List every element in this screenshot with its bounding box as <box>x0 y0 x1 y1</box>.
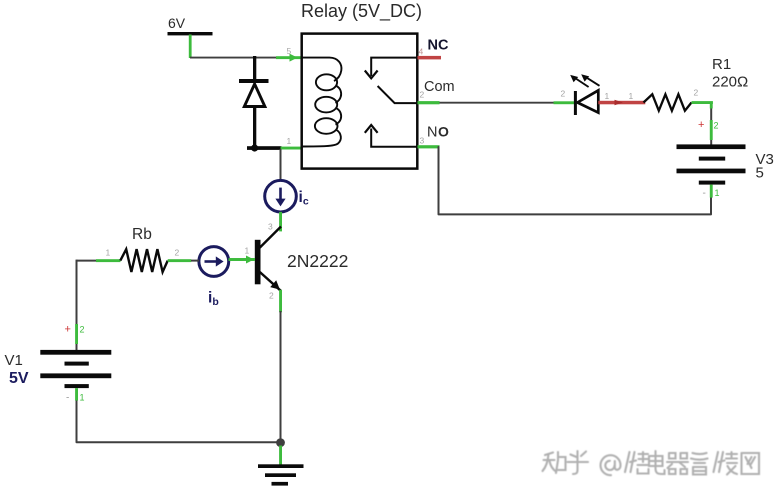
battery V1 <box>40 350 111 388</box>
wm char zi <box>691 453 708 475</box>
svg-text:1: 1 <box>80 393 85 403</box>
wire relay pin1 node down to ic source <box>280 149 282 181</box>
current probe ib <box>199 247 229 277</box>
svg-text:3: 3 <box>420 136 425 146</box>
pin 2 green stub <box>418 101 440 104</box>
wire emitter green stub <box>279 290 282 313</box>
wire V1 top vertical <box>76 260 78 325</box>
wire pin5 green stub with arrow <box>276 54 302 62</box>
svg-text:5: 5 <box>287 46 292 56</box>
wm char ji <box>625 452 649 474</box>
wm char dian <box>649 451 665 474</box>
svg-text:Com: Com <box>424 79 455 95</box>
LED emission arrow 1 <box>570 75 588 87</box>
svg-text:2: 2 <box>714 121 719 131</box>
relay contact NO arm with up arrow <box>365 125 418 147</box>
svg-text:1: 1 <box>287 136 292 146</box>
wire 6V to relay pin 5 <box>190 57 302 59</box>
battery V3 <box>677 144 746 184</box>
wire Rb to ib probe <box>191 260 199 262</box>
svg-text:6V: 6V <box>168 15 186 31</box>
wm char zhi <box>543 452 566 473</box>
relay coil L <box>302 58 342 147</box>
wire 6V stub (green) <box>189 35 192 59</box>
svg-text:+: + <box>698 119 704 131</box>
svg-text:2: 2 <box>80 325 85 335</box>
wire ground green stub <box>279 446 282 466</box>
svg-text:2: 2 <box>420 90 425 100</box>
svg-text:2N2222: 2N2222 <box>287 251 348 271</box>
svg-text:2: 2 <box>175 248 180 258</box>
wm char at <box>601 455 621 475</box>
svg-text:4: 4 <box>419 47 424 57</box>
label V3 5 <box>756 151 774 182</box>
svg-text:R1: R1 <box>712 56 731 73</box>
wire green stub Rb left <box>96 259 121 262</box>
wire LED to R1 (red) <box>598 101 645 105</box>
wire Com to LED <box>440 102 554 104</box>
wire ic to collector (green) <box>279 212 282 232</box>
svg-text:Rb: Rb <box>132 226 152 243</box>
svg-text:2: 2 <box>269 291 274 301</box>
svg-text:5: 5 <box>756 165 764 182</box>
svg-text:5V: 5V <box>9 370 29 387</box>
wire pin1 green stub <box>281 147 303 150</box>
svg-text:2: 2 <box>561 89 566 99</box>
pin 3 green stub <box>418 145 440 148</box>
svg-text:ib: ib <box>208 290 219 309</box>
transistor Q1 2N2222 <box>255 227 281 291</box>
wm char wang <box>742 453 760 474</box>
resistor Rb <box>120 249 167 272</box>
junction dot diode/anode node <box>251 144 258 151</box>
junction dot ground node <box>276 438 285 447</box>
label R1 220ohm <box>712 56 748 91</box>
svg-text:NO: NO <box>427 124 449 141</box>
relay contact NC arm with down arrow <box>365 58 418 79</box>
svg-text:+: + <box>65 324 71 336</box>
wire V3 minus green stub <box>710 185 713 198</box>
wire emitter down to ground node <box>280 311 282 442</box>
wire green stub V1 minus <box>75 388 78 401</box>
wm char qi <box>667 453 688 474</box>
power rail 6V <box>168 15 213 35</box>
diode D1 (flyback) <box>239 56 269 150</box>
LED emission arrow 2 <box>581 74 599 86</box>
svg-text:1: 1 <box>629 91 634 101</box>
wire green stub Rb right <box>168 259 192 262</box>
wire R1 to V3 plus (green corner) <box>692 101 713 144</box>
svg-text:ic: ic <box>299 189 309 208</box>
relay U1 box <box>302 34 418 169</box>
pin 4 red stub <box>418 56 442 60</box>
svg-text:NC: NC <box>428 38 449 54</box>
svg-text:V1: V1 <box>5 352 23 369</box>
watermark Zhihu @jidianqiziyuanwang <box>543 451 760 475</box>
wire anode node bar (thick) <box>247 146 282 150</box>
resistor R1 <box>644 94 692 110</box>
svg-text:Relay (5V_DC): Relay (5V_DC) <box>301 1 422 22</box>
ground symbol <box>258 464 304 485</box>
wire V1 plus dark gap <box>76 344 78 350</box>
svg-text:2: 2 <box>694 88 699 98</box>
wire V1 minus to ground node <box>77 401 281 443</box>
wm char yuan <box>714 452 738 475</box>
wire V1 plus corner to Rb <box>77 260 98 262</box>
svg-text:1: 1 <box>106 248 111 258</box>
wire NO to V3 minus (down, right, up) <box>439 147 712 214</box>
svg-text:-: - <box>66 393 69 404</box>
svg-text:1: 1 <box>715 188 720 198</box>
wire green stub at LED anode <box>554 101 576 104</box>
svg-text:-: - <box>703 188 706 199</box>
wire green stub V1 plus <box>75 324 78 344</box>
wire base green stub with arrow <box>229 256 256 264</box>
svg-text:1: 1 <box>605 91 610 101</box>
red current arrow <box>615 100 624 106</box>
svg-text:3: 3 <box>268 222 273 232</box>
svg-text:1: 1 <box>245 246 250 256</box>
wire ib to base (green) <box>229 258 256 261</box>
LED D2 <box>574 90 598 115</box>
current probe ic <box>265 180 297 212</box>
wm char hu <box>568 451 589 474</box>
svg-text:220Ω: 220Ω <box>712 74 748 91</box>
relay contact blade to Com <box>378 86 418 103</box>
